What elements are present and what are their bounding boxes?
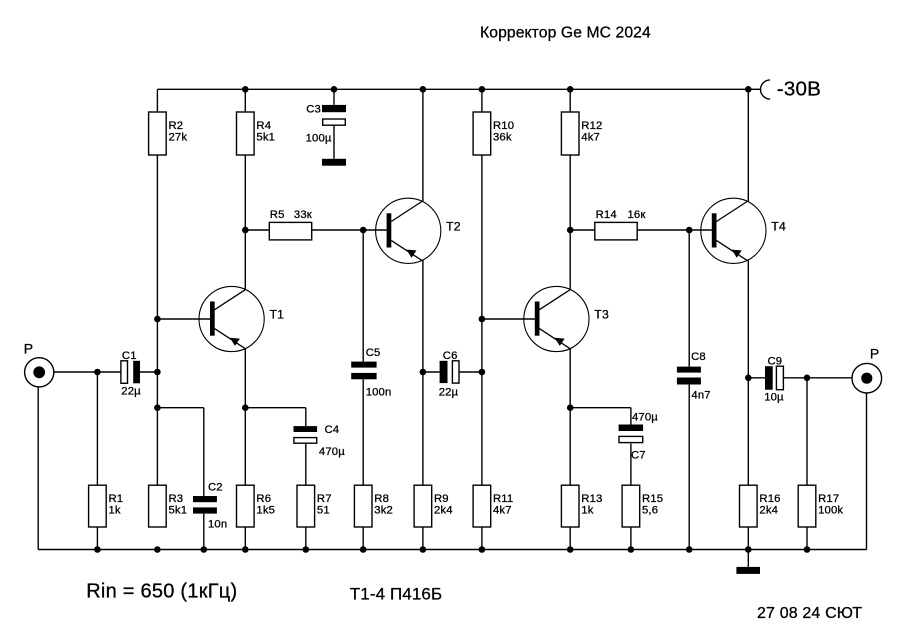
svg-text:R2: R2 (169, 120, 184, 132)
svg-text:R13: R13 (581, 493, 602, 505)
svg-text:P: P (24, 340, 34, 356)
svg-text:R6: R6 (256, 493, 271, 505)
svg-text:100µ: 100µ (306, 133, 332, 145)
svg-text:1k: 1k (109, 505, 121, 517)
svg-text:R8: R8 (374, 493, 389, 505)
svg-text:T3: T3 (594, 308, 609, 322)
svg-text:R10: R10 (493, 120, 514, 132)
svg-text:R7: R7 (317, 493, 332, 505)
svg-text:R5: R5 (270, 209, 285, 221)
svg-text:T4: T4 (771, 219, 786, 233)
svg-text:27k: 27k (169, 131, 188, 143)
svg-text:C1: C1 (122, 350, 137, 362)
svg-text:C3: C3 (306, 104, 321, 116)
svg-text:C2: C2 (208, 481, 223, 493)
svg-text:T2: T2 (446, 219, 461, 233)
svg-text:P: P (870, 345, 880, 361)
svg-text:51: 51 (317, 505, 330, 517)
svg-text:1k5: 1k5 (256, 505, 275, 517)
svg-text:C5: C5 (366, 347, 381, 359)
svg-text:R9: R9 (434, 493, 449, 505)
svg-text:R14: R14 (596, 209, 617, 221)
svg-text:C8: C8 (691, 351, 706, 363)
svg-text:100k: 100k (818, 505, 843, 517)
svg-text:R16: R16 (759, 493, 780, 505)
svg-text:Rin = 650 (1кГц): Rin = 650 (1кГц) (86, 580, 237, 602)
svg-text:4n7: 4n7 (691, 390, 710, 402)
svg-text:33к: 33к (294, 209, 312, 221)
svg-text:22µ: 22µ (121, 386, 141, 398)
svg-text:4k7: 4k7 (493, 505, 512, 517)
svg-text:T1: T1 (270, 308, 285, 322)
svg-text:C7: C7 (631, 450, 646, 462)
svg-text:R12: R12 (581, 120, 602, 132)
svg-text:-30В: -30В (777, 77, 821, 100)
svg-text:R15: R15 (642, 493, 663, 505)
svg-text:R1: R1 (109, 493, 124, 505)
svg-text:16к: 16к (628, 209, 646, 221)
svg-text:27 08 24 СЮТ: 27 08 24 СЮТ (757, 605, 862, 622)
svg-text:5k1: 5k1 (169, 505, 188, 517)
svg-text:1k: 1k (581, 505, 593, 517)
svg-text:22µ: 22µ (439, 386, 459, 398)
svg-text:C4: C4 (325, 424, 340, 436)
svg-text:R4: R4 (256, 120, 271, 132)
svg-text:R17: R17 (818, 493, 839, 505)
svg-text:R11: R11 (493, 493, 513, 505)
svg-text:470µ: 470µ (632, 412, 658, 424)
svg-text:R3: R3 (169, 493, 184, 505)
svg-text:5k1: 5k1 (256, 131, 275, 143)
svg-text:100n: 100n (366, 387, 392, 399)
svg-text:C9: C9 (768, 356, 783, 368)
svg-text:C6: C6 (443, 350, 458, 362)
svg-text:10µ: 10µ (764, 392, 784, 404)
svg-text:5,6: 5,6 (642, 505, 658, 517)
svg-text:2k4: 2k4 (434, 505, 453, 517)
svg-text:3k2: 3k2 (374, 505, 393, 517)
svg-text:470µ: 470µ (319, 446, 345, 458)
svg-text:10n: 10n (208, 519, 227, 531)
svg-text:Корректор Ge MC 2024: Корректор Ge MC 2024 (480, 25, 651, 42)
svg-text:4k7: 4k7 (581, 131, 600, 143)
svg-text:2k4: 2k4 (759, 505, 778, 517)
svg-text:Т1-4 П416Б: Т1-4 П416Б (350, 585, 442, 604)
svg-text:36k: 36k (493, 131, 512, 143)
